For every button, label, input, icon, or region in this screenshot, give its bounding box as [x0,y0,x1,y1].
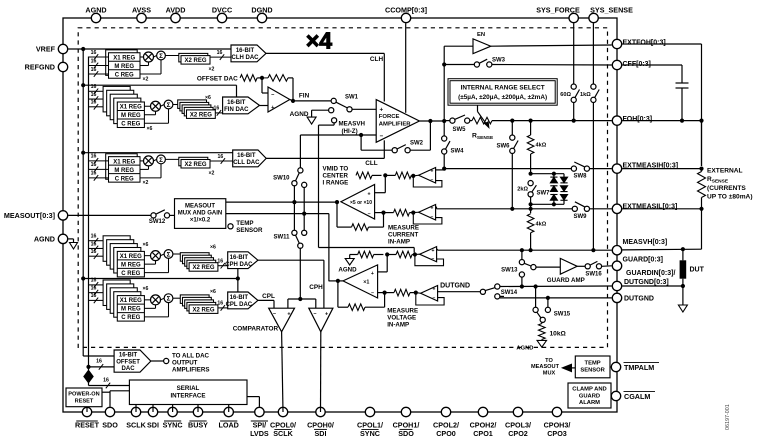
svg-text:+: + [431,206,434,212]
svg-text:SW15: SW15 [554,312,571,318]
node FOH at EN branch [442,119,446,123]
switch SW13 [521,250,523,259]
svg-text:16: 16 [91,67,97,73]
wire VREF tap row2 to FIN DAC [81,83,85,87]
svg-text:SYNC: SYNC [360,429,380,438]
svg-text:SW6: SW6 [496,144,510,150]
svg-text:MUX: MUX [543,371,556,377]
switch SW12 [151,213,156,218]
svg-text:AVSS: AVSS [132,5,151,14]
op-amp gain x5 or x10 (measure current) [341,185,375,220]
wire SW2 to force amp output [410,149,430,151]
svg-text:AMPLIFIER: AMPLIFIER [379,121,411,127]
feedback bracket buffer2 [413,213,442,224]
svg-text:X2 REG: X2 REG [192,265,214,271]
switch SW1 contact AGND [329,108,334,113]
svg-text:AVDD: AVDD [166,5,186,14]
svg-text:BUSY: BUSY [188,421,208,430]
switch SW7 with 2k ohm [528,181,533,186]
pin EXTFOH[0:3] (right) [612,39,621,48]
svg-text:16: 16 [91,84,97,90]
box POWER-ON RESET [66,388,102,407]
wire EXTMEASIH external [622,168,701,170]
svg-text:Σ: Σ [167,296,171,303]
svg-text:SW2: SW2 [410,141,424,147]
switch SW14 [480,289,485,294]
per-channel dashed border (x4 block) [78,28,607,348]
wire SW13 to guard amp [536,266,560,268]
svg-text:16: 16 [91,285,97,291]
svg-text:16-BIT: 16-BIT [230,295,249,301]
wire CLH to force amplifier clamp input [383,53,385,101]
register block stacked X1/M/C REG (x6) [103,280,130,306]
switch SW16 [577,265,585,267]
svg-text:×6: ×6 [143,242,149,248]
wire data bus to offset dac [86,365,90,369]
svg-text:16: 16 [91,100,97,106]
wire x1 - input [378,292,385,294]
svg-text:MEASURE: MEASURE [387,308,418,315]
svg-text:16: 16 [217,154,223,160]
register block X2 REG (x2) [165,55,181,57]
svg-text:16: 16 [91,249,97,255]
wire GUARDIN/DUTGND[0:3] [495,284,500,289]
svg-text:SYNC: SYNC [163,421,183,430]
resistor VMID [356,172,372,179]
wire FIN output [290,100,293,101]
svg-text:RSENSE: RSENSE [707,176,729,185]
switch SW1 contact FIN [331,98,336,103]
pin EXTMEASIL[0:3] (right) [612,204,621,213]
svg-text:FOH[0:3]: FOH[0:3] [623,116,653,123]
svg-text:16: 16 [91,162,97,168]
switch SW3 [444,64,474,66]
pin GUARD[0:3] (right) [612,261,621,270]
resistor AGND [358,251,374,258]
resistor 10k ohm [541,322,543,323]
svg-text:TEMP: TEMP [585,360,601,366]
svg-text:M REG: M REG [114,64,134,70]
svg-text:RESET: RESET [75,399,94,405]
svg-text:C REG: C REG [115,176,134,182]
svg-text:16: 16 [217,301,223,307]
op-amp buffer3 (MEASVH sense) [420,247,437,262]
svg-text:RSENSE: RSENSE [472,133,494,142]
switch SW10 [298,168,303,173]
svg-text:C REG: C REG [115,72,134,78]
pin CPOH2/CPO1 (bottom) [478,407,487,416]
svg-text:×6: ×6 [210,245,216,251]
wire temp sensor to TMPALM pin [609,366,612,368]
pin GUARDIN[0:3]/DUTGND[0:3] (right) [612,281,621,290]
svg-text:AGND: AGND [516,345,533,351]
svg-text:+: + [371,271,374,277]
svg-text:CLH DAC: CLH DAC [232,55,260,61]
svg-text:−: − [371,291,374,297]
svg-text:CLAMP AND: CLAMP AND [572,387,606,393]
box INTERNAL RANGE SELECT [448,79,557,106]
comparator CPOH0 [309,308,333,332]
svg-text:C REG: C REG [121,315,140,321]
bus wires 16 into registers [89,90,104,92]
op-amp gain x1 (measure voltage) [343,265,378,298]
svg-text:×6: ×6 [210,289,216,295]
pin SYNC (bottom) [168,407,177,416]
svg-text:X1 REG: X1 REG [120,105,142,111]
node buffer3 output [413,252,417,256]
wire to gain amp + input [384,175,386,192]
wire FIN DAC to offset summing amp [260,105,269,107]
wire FOH to EN buffer [443,46,445,121]
svg-text:SCLK: SCLK [273,429,293,438]
svg-text:+: + [379,106,383,113]
svg-text:DUTGND: DUTGND [440,283,470,290]
DAC 16-BIT CLH DAC [231,45,266,62]
box MEASOUT MUX AND GAIN [175,199,226,229]
resistor R_SENSE internal range [470,120,472,122]
svg-text:SDI: SDI [315,429,327,438]
pin SDO (bottom) [105,407,114,416]
pin CCOMP[0:3] (top) [401,13,410,22]
svg-text:CPL DAC: CPL DAC [226,302,253,308]
pin SYS_SENSE (top) [589,13,598,22]
DAC 16-BIT OFFSET DAC [114,350,151,372]
svg-text:SDI: SDI [147,421,159,430]
svg-text:(±5µA, ±20µA, ±200µA, ±2mA): (±5µA, ±20µA, ±200µA, ±2mA) [458,94,547,101]
pin REFGND (left) [58,62,67,71]
svg-text:16: 16 [91,241,97,247]
node buffer1 output [411,174,415,178]
wire serial bus to serial interface [89,385,130,387]
svg-text:AGND: AGND [34,235,55,244]
switch SW9 [572,206,577,211]
switch SW6 [511,121,513,136]
register block stacked X2 REG (x6) [173,297,183,299]
svg-text:TEMP: TEMP [236,220,253,227]
resistor 4k ohm lower [527,214,534,233]
svg-text:DGND: DGND [251,5,272,14]
resistor to buffer4 [394,289,410,296]
box CLAMP AND GUARD ALARM [568,383,611,408]
wire SYS_FORCE vertical [573,23,575,84]
svg-text:CPO1: CPO1 [473,429,493,438]
feedback bracket buffer1 [413,176,442,187]
svg-text:GUARD AMP: GUARD AMP [547,277,585,284]
svg-text:X2 REG: X2 REG [190,112,212,118]
node VREF bus junction [81,47,85,51]
svg-text:CPH DAC: CPH DAC [225,262,253,268]
svg-text:FORCE: FORCE [379,114,400,120]
feedback bracket buffer4 [416,293,444,305]
pin VREF (left) [58,44,67,53]
svg-text:Σ: Σ [159,157,163,164]
svg-text:16-BIT: 16-BIT [237,153,256,159]
svg-text:CPH: CPH [309,284,323,291]
svg-text:16: 16 [103,377,109,383]
ground symbol at AGND pin [68,238,73,240]
pin MEASOUT[0:3] (left) [58,211,67,220]
pin DVCC (top) [217,13,226,22]
svg-text:ALARM: ALARM [579,400,600,406]
svg-text:RESET: RESET [75,421,100,430]
DAC 16-BIT CPL DAC [228,292,258,309]
svg-text:(CURRENTS: (CURRENTS [707,185,746,192]
switch 60 ohm (SYS_FORCE) [571,84,576,89]
wire - input to SW10 chain [299,135,301,168]
wire EN buffer to EXTFOH pin [491,45,612,46]
svg-text:X1 REG: X1 REG [113,159,135,165]
svg-text:X1 REG: X1 REG [120,254,142,260]
node VMID junction [383,173,387,177]
svg-text:SW16: SW16 [585,271,602,277]
svg-text:SENSOR: SENSOR [580,368,605,374]
svg-text:SDO: SDO [102,421,118,430]
resistor external R_SENSE [698,172,706,198]
wire buffer2 + input to EXTMEASIL [435,206,438,208]
op-amp force amplifier [376,100,419,143]
svg-text:(HI-Z): (HI-Z) [342,128,358,135]
pin CPOL0/SCLK (bottom) [278,407,287,416]
svg-text:X2 REG: X2 REG [184,162,206,168]
svg-text:−: − [271,92,275,98]
pin TMPALM (right) [611,362,620,371]
wire gain amp - input [375,212,384,214]
wire buffer3 + input to MEASVH line [436,248,439,250]
svg-text:SCLK: SCLK [126,421,146,430]
pin DUTGND (right) [612,293,621,302]
svg-text:SW14: SW14 [501,290,518,296]
pin MEASVH[0:3] (right) [612,246,621,255]
svg-text:EN: EN [477,32,485,38]
op-amp buffer2 (EXTMEASIL sense) [419,205,436,221]
wires SCLK SDI SYNC BUSY LOAD to serial interface [135,405,137,407]
svg-text:COMPARATOR: COMPARATOR [233,326,279,333]
svg-text:SW12: SW12 [149,219,166,225]
svg-text:SW13: SW13 [501,268,518,274]
wire CLL to force amplifier clamp input [383,140,385,158]
svg-text:CURRENT: CURRENT [388,232,418,239]
svg-text:×5 or ×10: ×5 or ×10 [350,200,372,206]
node x1 output [336,279,340,283]
box SERIAL INTERFACE [129,380,247,405]
switch SW5 [450,118,455,123]
pin FOH[0:3] (right) [612,116,621,125]
svg-text:−: − [313,311,316,317]
wire 16-bit data bus vertical [88,57,90,367]
bus arrow to serial interface [88,367,90,370]
svg-text:OFFSET: OFFSET [116,359,140,365]
capacitor CFF-FOH [676,82,689,84]
DAC 16-BIT CLL DAC [233,150,267,167]
svg-text:SW3: SW3 [492,58,506,64]
wire VREF vertical bus [82,49,84,356]
svg-text:AMPLIFIERS: AMPLIFIERS [172,367,209,374]
pin SCLK (bottom) [131,407,140,416]
wire range select to R_SENSE arrow [477,105,479,111]
svg-text:+: + [367,192,370,198]
svg-text:TMPALM: TMPALM [624,363,654,372]
svg-text:16: 16 [214,106,220,112]
pin SYS_FORCE (top) [569,13,578,22]
svg-text:×1: ×1 [363,279,369,285]
svg-text:×2: ×2 [143,180,149,186]
wire MEASOUT from pin [68,214,151,216]
pin CPOL3/CPO2 (bottom) [513,407,522,416]
svg-text:SYS_SENSE: SYS_SENSE [590,5,633,14]
svg-text:MEASOUT[0:3]: MEASOUT[0:3] [4,211,55,220]
wire SYS_SENSE vertical [592,23,594,84]
svg-text:EXTERNAL: EXTERNAL [707,167,743,174]
switch SW1 pole [347,107,352,112]
DAC 16-BIT FIN DAC [223,97,260,114]
svg-text:16: 16 [91,234,97,240]
svg-text:SDO: SDO [398,429,414,438]
pin LOAD (bottom) [224,407,233,416]
svg-text:MEASOUT: MEASOUT [185,203,215,209]
summing node (C REG) [157,155,166,164]
svg-text:OFFSET DAC: OFFSET DAC [197,76,238,83]
svg-text:Σ: Σ [159,53,163,60]
contact MEASVH (HI-Z) [332,118,337,123]
svg-text:SW5: SW5 [452,127,466,133]
pin AGND (top) [91,13,100,22]
svg-text:×4: ×4 [306,28,332,54]
wire VREF tap row3 to CLL DAC [81,151,85,155]
wire force amp - input [300,134,376,136]
pin CPOL1/SYNC (bottom) [365,407,374,416]
svg-text:DUTGND: DUTGND [624,295,654,302]
comparator CPOL0 [269,308,295,332]
svg-text:M REG: M REG [121,307,141,313]
wire SW16 to GUARD pin [602,265,612,268]
svg-text:EXTFOH[0:3]: EXTFOH[0:3] [623,40,666,47]
svg-text:16: 16 [217,259,223,265]
resistor to buffer2 [394,209,410,216]
wire VREF bus to offset dac [83,355,114,357]
svg-text:−: − [431,214,434,220]
wire mux to voltage in-amp output [226,213,329,215]
svg-text:SYS_FORCE: SYS_FORCE [536,5,580,14]
svg-text:×2: ×2 [209,170,215,176]
svg-text:16-BIT: 16-BIT [236,48,255,54]
svg-text:I RANGE: I RANGE [323,179,349,186]
pin BUSY (bottom) [193,407,202,416]
wire R_SENSE to FOH pin [492,120,612,122]
chip outline border [63,18,617,412]
contact offset dac output [151,360,163,362]
svg-text:POWER-ON: POWER-ON [68,391,99,397]
bus wires 16 into registers [89,56,109,58]
svg-text:CLL DAC: CLL DAC [233,160,260,166]
svg-text:Σ: Σ [167,252,171,259]
switch SW15 pole [540,317,545,322]
svg-text:×6: ×6 [205,95,211,101]
pin CPOL2/CPO0 (bottom) [441,407,450,416]
svg-text:DAC: DAC [122,366,136,372]
wire X2 REG to DAC with 16 slash [210,56,231,58]
diodes clamp stack up (left) [553,174,555,177]
svg-text:M REG: M REG [121,263,141,269]
svg-text:16: 16 [91,154,97,160]
svg-text:+: + [431,169,434,175]
pin EXTMEASIH[0:3] (right) [612,164,621,173]
svg-text:4kΩ: 4kΩ [536,143,547,149]
wire CFF external to capacitor [622,64,682,66]
svg-text:×6: ×6 [143,286,149,292]
wire RESET pin to POR [86,406,88,408]
svg-text:SW9: SW9 [573,214,587,220]
svg-text:REFGND: REFGND [25,63,55,72]
svg-text:FIN DAC: FIN DAC [224,107,249,113]
register block X2 REG (x2) [165,158,181,160]
pin AGND (left) [58,234,67,243]
register block stacked X2 REG (x6) [173,104,181,106]
svg-text:AGND: AGND [338,266,357,273]
svg-text:TO ALL DAC: TO ALL DAC [172,353,210,360]
wire X2 REG to DAC with 16 slash [215,112,222,114]
svg-text:+: + [433,287,436,293]
pin CFF[0:3] (right) [612,60,621,69]
op-amp buffer1 (EXTMEASIH sense) [419,168,436,184]
diodes clamp stack down (right) [563,174,565,177]
resistor to buffer1 [385,174,395,176]
svg-text:C REG: C REG [121,122,140,128]
switch 1k ohm (SYS_SENSE) [591,84,596,89]
svg-text:SW7: SW7 [537,191,551,197]
resistor offset feedback [268,75,288,82]
contact alternate SW10 [302,182,307,187]
wire comparator outputs to pins [282,332,283,412]
wire FOH external [622,120,701,122]
svg-text:OUTPUT: OUTPUT [172,360,198,367]
svg-text:4kΩ: 4kΩ [536,221,547,227]
svg-text:UP TO ±80mA): UP TO ±80mA) [707,193,753,200]
bus wires 16 into registers [89,240,104,242]
svg-text:GUARD: GUARD [579,393,600,399]
summing node (C REG) [164,250,173,259]
pin SDI (bottom) [148,407,157,416]
wire capacitor to FOH [681,88,683,121]
node AGND junction [385,252,389,256]
switch SW2 [392,148,397,153]
svg-text:IN-AMP: IN-AMP [387,322,409,329]
wire CPH DAC output [258,259,324,261]
wire VREF from pin to CLH DAC [68,48,231,50]
wire SW10 to mux wire 1 [293,186,295,202]
svg-text:−: − [379,133,383,140]
wire feedback to FIN output [288,77,293,79]
svg-text:16-BIT: 16-BIT [230,255,249,261]
svg-text:CPO3: CPO3 [547,429,567,438]
clamp diode network rails [531,173,564,175]
pin CPOH1/SDO (bottom) [401,407,410,416]
svg-text:MEASVH: MEASVH [339,121,366,128]
svg-text:TO: TO [545,358,553,364]
resistor offset input [240,75,257,82]
bus wires 16 into registers [89,160,109,162]
wire X2 REG to DAC with 16 slash [210,160,233,162]
svg-text:DVCC: DVCC [212,5,232,14]
svg-text:CLH: CLH [370,56,384,63]
switch SW8 [571,166,576,171]
wire EXTMEASIH [444,168,571,170]
svg-text:DUTGND[0:3]: DUTGND[0:3] [624,279,669,286]
wire DAC reference to CPH/CPL DACs [83,278,238,280]
wire EXTMEASIL external [622,208,701,210]
svg-text:CPO2: CPO2 [508,429,528,438]
svg-text:16: 16 [217,50,223,56]
pin AVDD (top) [171,13,180,22]
